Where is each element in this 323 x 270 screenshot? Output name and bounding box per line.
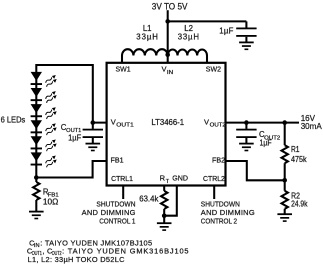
svg-text:IN: IN bbox=[167, 70, 173, 76]
svg-text:OUT2: OUT2 bbox=[210, 123, 226, 129]
node supply/CIN junction bbox=[165, 19, 170, 24]
svg-text:CTRL1: CTRL1 bbox=[111, 174, 133, 183]
node COUT2 junction bbox=[244, 120, 249, 125]
ground RT/GND bbox=[157, 222, 172, 231]
svg-text:SW2: SW2 bbox=[206, 65, 221, 74]
svg-text:63.4k: 63.4k bbox=[139, 195, 158, 204]
resistor R1 475k bbox=[284, 123, 286, 146]
wire FB2 to divider tap bbox=[226, 161, 285, 180]
svg-text:10Ω: 10Ω bbox=[43, 197, 59, 206]
svg-text:R1: R1 bbox=[291, 145, 300, 154]
svg-text:24.9k: 24.9k bbox=[291, 199, 307, 208]
svg-text:6 LEDs: 6 LEDs bbox=[1, 116, 26, 125]
wire VOUT2 output rail bbox=[226, 122, 300, 124]
op-amp U1 LT3466-1 IC body bbox=[107, 63, 226, 186]
svg-text:33µH: 33µH bbox=[178, 33, 199, 42]
svg-text:L1, L2: 33µH TOKO D52LC: L1, L2: 33µH TOKO D52LC bbox=[28, 255, 126, 264]
wire SW1 pin stub bbox=[121, 56, 123, 64]
LED D4 bbox=[31, 120, 58, 135]
svg-text:LT3466-1: LT3466-1 bbox=[151, 118, 184, 127]
LED D2 bbox=[31, 88, 58, 103]
svg-text:FB1: FB1 bbox=[111, 156, 124, 165]
svg-text:SW1: SW1 bbox=[116, 65, 131, 74]
wire SW2 pin stub bbox=[206, 56, 208, 64]
LED D1 bbox=[31, 72, 58, 87]
wire CTRL1 pin stub bbox=[122, 186, 124, 200]
wire CTRL2 pin stub bbox=[213, 186, 215, 200]
svg-text:R: R bbox=[160, 174, 166, 183]
svg-text:V: V bbox=[204, 117, 209, 126]
wire GND pin to RT bottom bbox=[164, 186, 177, 216]
node VIN/L1/L2 junction bbox=[165, 53, 170, 58]
svg-text:CONTROL 2: CONTROL 2 bbox=[201, 217, 237, 226]
svg-text:33µH: 33µH bbox=[136, 33, 158, 42]
capacitor COUT1 1uF with ground bbox=[83, 123, 103, 152]
wire branch to input capacitor bbox=[168, 20, 247, 22]
svg-text:OUT1: OUT1 bbox=[116, 123, 133, 129]
svg-text:V: V bbox=[162, 65, 167, 74]
svg-text:1µF: 1µF bbox=[68, 133, 81, 142]
LED D3 bbox=[31, 104, 58, 119]
LED D6 bbox=[31, 152, 58, 167]
wire VOUT1 to LED anode string bbox=[36, 65, 105, 178]
node R1 top junction bbox=[282, 120, 287, 125]
svg-text:1µF: 1µF bbox=[219, 26, 233, 35]
resistor R2 24.9k bbox=[284, 180, 286, 191]
ground R2 bbox=[277, 213, 292, 222]
resistor RFB1 10ohm bbox=[35, 178, 37, 183]
node FB2 divider junction bbox=[282, 178, 287, 183]
svg-text:FB2: FB2 bbox=[212, 156, 225, 165]
wire supply rail down to VIN bbox=[167, 10, 169, 63]
LED D5 bbox=[31, 136, 58, 151]
ground RFB1 bbox=[29, 211, 44, 220]
capacitor CIN 1uF with ground bbox=[236, 21, 256, 50]
inductor L1 bbox=[122, 49, 168, 55]
svg-text:GND: GND bbox=[172, 174, 188, 183]
resistor RT 63.4k bbox=[163, 186, 165, 191]
svg-text:CTRL2: CTRL2 bbox=[203, 174, 225, 183]
node COUT1/VOUT1 junction bbox=[91, 120, 96, 125]
inductor L2 bbox=[168, 49, 207, 55]
svg-text:CONTROL 1: CONTROL 1 bbox=[99, 217, 135, 226]
node RT/GND junction bbox=[162, 213, 167, 218]
node LED cathode / RFB1 junction bbox=[34, 175, 39, 180]
svg-text:30mA: 30mA bbox=[301, 121, 322, 131]
svg-text:1µF: 1µF bbox=[260, 139, 272, 148]
svg-text:475k: 475k bbox=[291, 155, 307, 164]
svg-text:3V TO 5V: 3V TO 5V bbox=[152, 1, 188, 11]
svg-text:V: V bbox=[111, 117, 116, 126]
wire FB1 to RFB1 top bbox=[36, 161, 105, 178]
svg-text:IN: IN bbox=[34, 243, 40, 249]
capacitor COUT2 1uF with ground bbox=[236, 123, 256, 152]
